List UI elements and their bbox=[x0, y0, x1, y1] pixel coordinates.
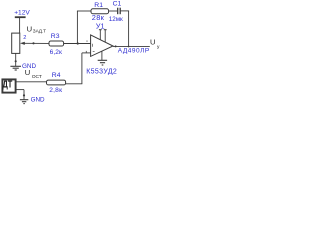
wire wiper to R3 bbox=[24, 42, 50, 44]
+12V terminal bar bbox=[15, 16, 26, 18]
riser from R4 to non-inverting input bbox=[81, 53, 83, 84]
ground under op-amp bbox=[98, 60, 107, 65]
svg-text:R1: R1 bbox=[94, 2, 103, 9]
resistor R3 bbox=[49, 41, 64, 46]
wire R1 to C1 bbox=[109, 10, 118, 12]
ground under potentiometer bbox=[10, 66, 21, 70]
power pin 2 bbox=[104, 30, 106, 42]
feedback right riser to output bbox=[128, 11, 130, 47]
svg-text:2: 2 bbox=[23, 35, 26, 41]
svg-text:6,2к: 6,2к bbox=[50, 49, 62, 56]
svg-text:2,8к: 2,8к bbox=[49, 87, 62, 94]
output wire bbox=[113, 45, 150, 47]
svg-text:К553УД2: К553УД2 bbox=[86, 69, 117, 76]
svg-text:12мк: 12мк bbox=[109, 16, 123, 23]
svg-text:R4: R4 bbox=[52, 72, 61, 79]
svg-text:ОСТ: ОСТ bbox=[32, 74, 42, 80]
wire down to ground bbox=[23, 90, 25, 100]
junction node B (feedback tap) bbox=[77, 42, 79, 44]
capacitor C1 bbox=[117, 8, 119, 15]
feedback junction dot on output bbox=[128, 46, 130, 48]
svg-text:U: U bbox=[25, 68, 30, 77]
output pin junction dot bbox=[115, 45, 117, 47]
wire DT bottom terminal bbox=[16, 89, 24, 91]
feedback top rail wire bbox=[77, 10, 91, 12]
svg-text:U: U bbox=[150, 38, 155, 47]
junction node A bbox=[32, 42, 34, 44]
wiper arrow of potentiometer bbox=[20, 42, 25, 45]
temperature sensor DT box bbox=[2, 79, 15, 92]
resistor R4 bbox=[47, 80, 66, 85]
potentiometer R2 body bbox=[12, 33, 20, 53]
svg-text:ДТ: ДТ bbox=[3, 79, 13, 90]
svg-text:C1: C1 bbox=[113, 1, 122, 8]
pin mark at inverting input bbox=[86, 41, 88, 42]
power pin 1 bbox=[99, 30, 101, 40]
svg-text:GND: GND bbox=[31, 97, 45, 104]
svg-text:У1: У1 bbox=[96, 21, 105, 30]
wire pot bottom to ground bbox=[15, 53, 17, 66]
pin mark at non-inverting input bbox=[85, 51, 87, 53]
ground under DT bbox=[20, 100, 28, 104]
mark inside near inverting input bbox=[91, 44, 93, 47]
svg-text:ЗАД.Т: ЗАД.Т bbox=[33, 29, 46, 34]
mark inside near non-inverting input bbox=[93, 51, 95, 53]
svg-text:у: у bbox=[157, 45, 160, 50]
wire C1 to right corner bbox=[120, 10, 129, 12]
wire to non-inverting input bbox=[82, 52, 91, 54]
svg-text:U: U bbox=[27, 24, 32, 33]
svg-text:+12V: +12V bbox=[14, 10, 30, 17]
junction dot on DT ground wire bbox=[23, 94, 25, 96]
op-amp U1 triangle bbox=[91, 35, 113, 57]
wire DT to R4 bbox=[16, 81, 47, 83]
svg-text:АД490ЛР: АД490ЛР bbox=[118, 47, 150, 54]
wire R3 to op-amp inverting input bbox=[64, 43, 91, 45]
feedback riser wire bbox=[76, 11, 78, 44]
svg-text:R3: R3 bbox=[51, 33, 60, 40]
wire R4 to riser bbox=[66, 83, 83, 85]
junction dot on pot ground wire bbox=[15, 60, 17, 62]
wire +12V to potentiometer R2 top bbox=[19, 18, 21, 34]
resistor R1 bbox=[91, 9, 109, 14]
op-amp ground pin wire bbox=[101, 51, 103, 60]
